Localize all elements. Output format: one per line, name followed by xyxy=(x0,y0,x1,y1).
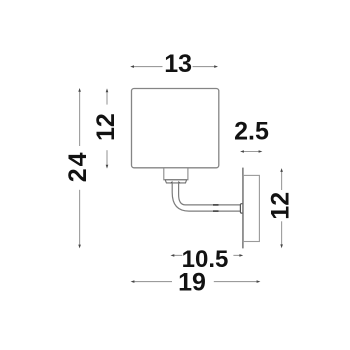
dim 13 arrow left xyxy=(130,65,134,68)
dim 13 line left segment xyxy=(132,66,163,68)
socket-tube fillet right xyxy=(178,181,180,184)
dim 13 arrow right xyxy=(214,65,218,68)
svg-text:19: 19 xyxy=(178,269,206,297)
dim 24 line top segment xyxy=(79,90,81,146)
socket body xyxy=(164,168,188,180)
arm inner contour xyxy=(179,183,241,205)
dim 12 left arrow top xyxy=(106,88,109,92)
wall plate body xyxy=(243,175,259,241)
dim 19 line right segment xyxy=(214,281,259,283)
svg-text:13: 13 xyxy=(164,50,192,78)
dim 12 left arrow bottom xyxy=(106,165,109,169)
dim 13 line right segment xyxy=(193,66,217,68)
dim 10.5 arrow right xyxy=(239,254,243,257)
dim 12 right line top segment xyxy=(281,170,283,190)
svg-text:12: 12 xyxy=(92,113,120,141)
dim 10.5 line left segment xyxy=(173,254,183,256)
dim 19 arrow left xyxy=(131,280,135,283)
svg-text:24: 24 xyxy=(64,150,92,182)
dim 10.5 line right segment xyxy=(233,254,241,256)
wall plate front rim xyxy=(242,168,244,249)
dim 2.5 line xyxy=(242,151,261,153)
dim 24 line bottom segment xyxy=(79,190,81,247)
dim 24 arrow bottom xyxy=(78,245,81,249)
socket-tube fillet left xyxy=(170,181,172,184)
arm joint seam bottom xyxy=(213,210,219,212)
arm outer contour xyxy=(172,183,241,211)
dim 19 line left segment xyxy=(133,281,173,283)
arm ferrule at wall plate xyxy=(240,204,243,213)
dim 12 right arrow top xyxy=(280,168,283,172)
lamp shade xyxy=(132,89,219,168)
socket lip xyxy=(165,180,186,183)
svg-text:12: 12 xyxy=(267,192,295,220)
dim 19 arrow right xyxy=(257,280,261,283)
dim 2.5 arrow right xyxy=(259,150,263,153)
svg-text:2.5: 2.5 xyxy=(234,118,269,146)
dim 12 left line top segment xyxy=(106,90,108,104)
dim 12 right line bottom segment xyxy=(281,221,283,246)
dim 12 left line bottom segment xyxy=(106,150,108,166)
dim 10.5 arrow left xyxy=(171,254,175,257)
arm joint seam top xyxy=(213,204,219,206)
dim 24 arrow top xyxy=(78,88,81,92)
dim 2.5 arrow left xyxy=(240,150,244,153)
dim 12 right arrow bottom xyxy=(280,244,283,248)
